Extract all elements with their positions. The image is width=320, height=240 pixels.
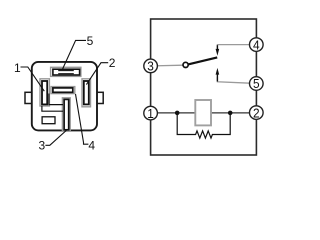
svg-text:3: 3: [147, 59, 154, 74]
pin 2 cavity outer: [82, 79, 91, 107]
label 4 leader: [76, 94, 89, 144]
pin 3 cavity outer: [62, 98, 70, 131]
pin 2 cavity slot: [84, 81, 89, 104]
pin 1 cavity outer: [40, 79, 49, 106]
pin 4 cavity outer: [51, 87, 75, 94]
relay connector right tab: [96, 92, 103, 103]
contact arrow from 5: [216, 74, 218, 82]
pin 5 cavity outer: [51, 67, 81, 76]
relay coil box: [195, 100, 211, 125]
switch pivot: [183, 62, 188, 67]
resistor branch: [177, 113, 230, 138]
label 2 leader: [86, 63, 108, 85]
pin 5 cavity channel bottom line: [58, 73, 74, 75]
terminal 5: [249, 77, 263, 91]
relay connector body: [32, 62, 97, 130]
wire terminal 5 contact: [217, 77, 250, 83]
cavity outline upper step: [49, 94, 63, 105]
svg-text:4: 4: [88, 139, 95, 153]
keyway rectangle: [42, 117, 55, 124]
terminal 4: [249, 38, 263, 52]
svg-text:2: 2: [253, 105, 260, 120]
junction dot left: [175, 111, 180, 116]
svg-text:1: 1: [14, 61, 21, 75]
cavity outline lower step: [42, 106, 63, 111]
svg-text:5: 5: [87, 34, 94, 48]
terminal 2: [249, 106, 263, 120]
relay connector left tab: [25, 92, 33, 103]
label 5 leader: [62, 40, 86, 69]
pin 5 cavity channel top line: [58, 70, 74, 72]
label 3 leader: [45, 130, 67, 145]
pin 5 cavity slot: [53, 69, 80, 75]
pin 4 cavity slot: [53, 88, 73, 92]
svg-text:2: 2: [109, 56, 116, 70]
terminal 3: [144, 59, 158, 73]
svg-text:5: 5: [253, 76, 260, 91]
terminal 1: [144, 106, 158, 120]
coil wire 1 to 2: [153, 112, 254, 114]
pin 3 cavity slot: [64, 99, 69, 129]
junction dot right: [228, 111, 233, 116]
wire terminal 4 contact: [217, 45, 250, 49]
svg-text:1: 1: [147, 106, 154, 121]
schematic box: [151, 19, 257, 155]
switch blade: [188, 57, 217, 64]
pin 1 cavity slot: [42, 81, 47, 104]
svg-text:3: 3: [38, 139, 45, 153]
contact arrow from 4: [216, 45, 218, 50]
svg-text:4: 4: [253, 37, 260, 52]
label 1 leader: [21, 67, 45, 91]
wire terminal 3 to pivot: [153, 64, 183, 67]
